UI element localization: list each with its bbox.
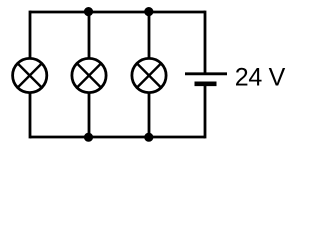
wire middle branch lower [88, 93, 91, 138]
wire third branch lower [148, 93, 151, 138]
wire top rail [30, 11, 205, 14]
node junction bottom third [144, 133, 153, 142]
wire third branch [148, 12, 151, 59]
node junction bottom middle [84, 133, 93, 142]
battery G1 plate positive [185, 72, 227, 75]
lamp E1 [13, 58, 47, 92]
node junction top third [144, 7, 153, 16]
wire left branch lower [29, 93, 32, 139]
lamp E2 [72, 58, 106, 92]
wire middle branch [88, 12, 91, 59]
wire battery branch lower [204, 84, 207, 138]
wire bottom rail [30, 136, 205, 139]
wire battery branch upper [204, 11, 207, 74]
lamp E3 [132, 58, 166, 92]
node junction top middle [84, 7, 93, 16]
svg-text:24 V: 24 V [235, 64, 286, 92]
wire left branch [29, 11, 32, 59]
battery G1 plate negative [195, 82, 217, 87]
